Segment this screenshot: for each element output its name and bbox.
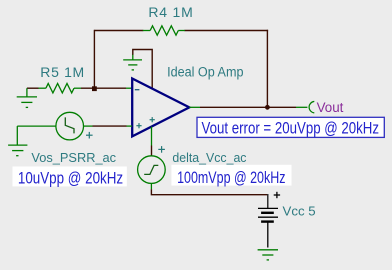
wire feedback left vertical: [93, 30, 95, 88]
white band under Vos value: [13, 167, 127, 187]
wire output run: [200, 106, 296, 108]
wire ground to op-amp V- pin horizontal: [133, 50, 152, 89]
source plus sign: [158, 146, 165, 153]
svg-text:10uVpp @ 20kHz: 10uVpp @ 20kHz: [18, 169, 123, 188]
op-amp plus input label: [136, 123, 141, 128]
voltage source Vos_PSRR_ac: [56, 112, 93, 140]
resistor R5: [39, 84, 82, 93]
battery Vcc: [258, 208, 278, 247]
output terminal arc: [309, 101, 314, 113]
svg-text:R4 1M: R4 1M: [148, 4, 192, 20]
wire delta source bottom to battery: [151, 189, 267, 194]
ground at Vos source: [8, 126, 27, 156]
wire op-amp V+ pin down green: [151, 127, 153, 146]
annotation box Vout error: [197, 117, 384, 137]
wire output terminal green: [296, 106, 307, 108]
source waveform glyph: [65, 117, 74, 133]
resistor R4: [143, 26, 185, 35]
ground below battery: [258, 250, 278, 260]
wire feedback top right segment: [185, 30, 269, 32]
white band under delta value: [171, 165, 291, 186]
op-amp U1: [132, 79, 189, 137]
svg-text:Vcc 5: Vcc 5: [283, 204, 316, 219]
battery plus sign: [274, 192, 280, 198]
source waveform glyph: [144, 165, 158, 174]
op-amp minus input label: [135, 89, 140, 91]
wire op-amp output green stub: [189, 106, 200, 108]
wire green stub into op-amp plus: [127, 125, 133, 127]
voltage source delta_Vcc_ac: [138, 156, 166, 190]
wire ground to Vos source: [17, 125, 56, 127]
wire green stub into op-amp minus: [126, 87, 132, 89]
wire R5 left (ground to resistor): [27, 87, 39, 89]
svg-text:R5 1M: R5 1M: [40, 64, 84, 80]
wire feedback right vertical: [266, 30, 268, 108]
node junction at inverting input: [92, 86, 97, 91]
svg-text:Vout error = 20uVpp @ 20kHz: Vout error = 20uVpp @ 20kHz: [202, 120, 380, 138]
ground at R5 input: [17, 88, 37, 107]
wire battery top lead: [267, 194, 269, 208]
svg-text:Vos_PSRR_ac: Vos_PSRR_ac: [31, 150, 116, 165]
svg-text:Vout: Vout: [317, 100, 344, 115]
svg-text:Ideal Op Amp: Ideal Op Amp: [167, 65, 243, 80]
wire R5 to inverting input: [81, 87, 126, 89]
wire to delta source top: [151, 146, 153, 156]
node junction at output: [265, 105, 270, 110]
source plus sign: [86, 132, 93, 139]
op-amp V+ pin label: [150, 117, 155, 122]
wire feedback top left segment: [94, 30, 143, 32]
wire Vos to non-inverting input: [93, 125, 127, 127]
ground above op-amp: [123, 54, 142, 70]
svg-text:100mVpp @ 20kHz: 100mVpp @ 20kHz: [177, 168, 285, 187]
svg-text:delta_Vcc_ac: delta_Vcc_ac: [172, 150, 247, 165]
